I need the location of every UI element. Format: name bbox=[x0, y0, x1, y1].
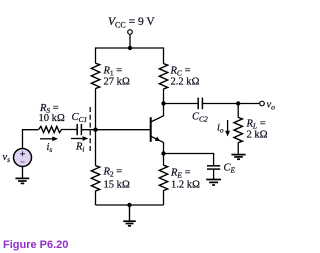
wire RE to bottom rail bbox=[163, 190, 165, 205]
wire RC to collector bbox=[163, 89, 165, 117]
wire RS to CC1 bbox=[61, 129, 77, 131]
ground CE bbox=[206, 180, 221, 186]
label R2 = 15 kOhm bbox=[103, 167, 130, 191]
label RC = 2.2 kOhm bbox=[170, 66, 200, 88]
ground bottom bbox=[123, 205, 136, 226]
node Ri dashed line bbox=[89, 107, 91, 151]
wire vs to ground bbox=[22, 167, 24, 179]
wire VCC stem bbox=[129, 34, 131, 48]
wire bottom rail bbox=[96, 204, 164, 206]
junction collector node bbox=[161, 101, 165, 105]
label CC1 bbox=[72, 112, 88, 124]
wire output node to vo bbox=[238, 103, 259, 105]
label Figure P6.20 bbox=[3, 239, 68, 251]
svg-text:2 kΩ: 2 kΩ bbox=[247, 130, 268, 141]
label RE = 1.2 kOhm bbox=[170, 168, 200, 191]
wire collector node to CC2 bbox=[164, 103, 198, 105]
junction emitter node bbox=[161, 151, 165, 155]
wire emitter node to CE bbox=[164, 154, 214, 166]
wire rail to R1 bbox=[95, 47, 97, 63]
ground vs bbox=[15, 178, 29, 183]
svg-text:+: + bbox=[20, 150, 25, 160]
resistor R2 bbox=[91, 166, 99, 191]
svg-text:2.2 kΩ: 2.2 kΩ bbox=[171, 77, 200, 88]
label CC2 bbox=[192, 112, 208, 124]
label CE bbox=[224, 163, 236, 175]
wire R2 to bottom rail bbox=[95, 191, 97, 205]
junction VCC rail bbox=[128, 46, 132, 50]
arrow io bbox=[225, 120, 230, 137]
source vs bbox=[14, 149, 32, 167]
svg-text:15 kΩ: 15 kΩ bbox=[104, 180, 130, 191]
arrow is bbox=[40, 136, 58, 141]
terminal vo bbox=[260, 101, 265, 106]
label VCC = 9 V bbox=[108, 16, 155, 30]
wire top rail bbox=[96, 47, 164, 49]
resistor RS bbox=[39, 126, 62, 132]
resistor R1 bbox=[91, 63, 99, 88]
svg-text:1.2 kΩ: 1.2 kΩ bbox=[171, 180, 200, 191]
resistor RL bbox=[234, 117, 242, 142]
wire CC1 to base bbox=[82, 129, 151, 131]
label Ri bbox=[75, 142, 85, 154]
label RS = 10 kOhm bbox=[39, 103, 65, 124]
arrow Ri bbox=[71, 136, 88, 141]
wire R1 to base node to R2 bbox=[95, 88, 97, 165]
wire emitter to node bbox=[163, 142, 165, 153]
wire rail to RC bbox=[163, 47, 165, 63]
junction bottom rail bbox=[127, 203, 131, 207]
capacitor CC2 bbox=[198, 98, 202, 110]
junction base node bbox=[93, 128, 97, 132]
wire CC2 to output node bbox=[203, 103, 238, 105]
label io bbox=[217, 123, 224, 135]
svg-text:10 kΩ: 10 kΩ bbox=[39, 113, 65, 124]
ground RL bbox=[231, 155, 245, 160]
resistor RC bbox=[159, 64, 167, 89]
wire RL to ground bbox=[237, 143, 239, 155]
label vo bbox=[267, 100, 276, 112]
capacitor CC1 bbox=[77, 124, 81, 135]
label vs bbox=[3, 152, 11, 164]
svg-text:27 kΩ: 27 kΩ bbox=[104, 77, 130, 88]
label RL = 2 kOhm bbox=[246, 119, 268, 141]
transistor Q1 bbox=[151, 116, 164, 143]
label is bbox=[47, 142, 53, 154]
capacitor CE bbox=[207, 166, 220, 180]
wire output node to RL bbox=[237, 104, 239, 118]
wire emitter node to RE bbox=[163, 154, 165, 166]
terminal VCC bbox=[128, 30, 133, 35]
label R1 = 27 kOhm bbox=[103, 66, 130, 88]
resistor RE bbox=[159, 165, 167, 190]
junction output node bbox=[236, 101, 240, 105]
wire vs to RS bbox=[23, 130, 39, 149]
